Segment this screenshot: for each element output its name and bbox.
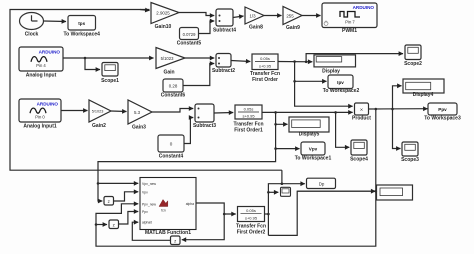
svg-text:Gain2: Gain2 [92, 123, 106, 129]
svg-text:Constant5: Constant5 [177, 41, 202, 47]
svg-text:5/1023: 5/1023 [92, 110, 104, 114]
wire Constant5 to Subtract4 [199, 21, 215, 34]
block Subtract4 [216, 9, 233, 26]
svg-text:Gain8: Gain8 [249, 25, 263, 31]
svg-text:To Workspace3: To Workspace3 [424, 116, 461, 122]
block To Workspace3 (Ppv) [428, 103, 457, 115]
svg-text:tps: tps [78, 21, 85, 26]
wire Gain9 to PWM1 [302, 15, 321, 17]
scope Scope2 [405, 45, 421, 60]
svg-text:Subtract3: Subtract3 [193, 123, 216, 129]
svg-text:MATLAB Function1: MATLAB Function1 [145, 230, 191, 236]
svg-text:Pin 4: Pin 4 [36, 63, 46, 68]
wire Subtract3 to Transfer Fcn First Order1 [214, 112, 233, 115]
svg-text:Subtract4: Subtract4 [213, 28, 236, 34]
block Display1 [377, 185, 413, 200]
scope Scope4 [351, 140, 367, 155]
svg-text:Constant4: Constant4 [159, 154, 184, 160]
scope Scope5 [281, 187, 291, 196]
wire Unit Delay1 to MATLAB in2 [114, 192, 139, 201]
delay Unit Delay1 [104, 197, 114, 206]
svg-text:Analog Input1: Analog Input1 [23, 124, 57, 130]
gain Gain10 (2.9025) [151, 3, 179, 24]
wire Ppv net: Product out to To Workspace3 / Display7 / Scope3 / down [369, 108, 428, 110]
block Display7 [403, 79, 444, 93]
svg-text:0.05s: 0.05s [260, 56, 270, 61]
wire Subtract4 to Gain8 [233, 16, 244, 18]
block To Workspace1 (Vpv) [301, 142, 325, 155]
svg-text:Vpv: Vpv [309, 147, 318, 152]
block Display [314, 55, 356, 67]
svg-text:ARDUINO: ARDUINO [39, 50, 61, 55]
svg-text:Ppv_new: Ppv_new [142, 202, 156, 206]
svg-text:alpha: alpha [186, 202, 194, 206]
wire Gain2 to Gain3 [111, 110, 127, 113]
svg-text:PWM1: PWM1 [342, 28, 357, 34]
svg-text:Gain: Gain [163, 70, 174, 76]
wire Unit Delay2 to MATLAB in4 [119, 212, 139, 225]
wire Display right edge to Scope2 [305, 61, 308, 64]
wire Gain3 to Subtract3 [152, 109, 193, 113]
svg-text:fcn: fcn [161, 209, 166, 213]
block Transfer Fcn First Order [252, 54, 278, 70]
svg-text:Display: Display [322, 69, 340, 75]
svg-text:s+0.95: s+0.95 [242, 114, 255, 119]
block MATLAB Function1 [140, 178, 196, 230]
svg-text:Scope3: Scope3 [401, 157, 419, 163]
wire D feedback from bottom to Gain10 [10, 10, 282, 171]
svg-text:Display4: Display4 [413, 92, 434, 98]
wire MATLAB alpha out to Transfer Fcn First Order2 and feedback delay [196, 203, 236, 214]
svg-text:5.3: 5.3 [134, 110, 141, 115]
svg-text:To Workspace4: To Workspace4 [63, 32, 100, 38]
svg-text:0.0729: 0.0729 [183, 32, 196, 37]
svg-text:Scope2: Scope2 [404, 61, 422, 67]
block Dp [307, 178, 336, 188]
constant Constant4 (0) [158, 135, 184, 152]
svg-text:First Order2: First Order2 [237, 230, 266, 236]
svg-text:Pin 7: Pin 7 [345, 20, 355, 25]
svg-text:ARDUINO: ARDUINO [37, 102, 59, 107]
svg-text:1/3: 1/3 [249, 13, 256, 18]
svg-text:Vpv_new: Vpv_new [142, 182, 156, 186]
scope Scope1 [102, 63, 118, 77]
block Transfer Fcn First Order1 [235, 105, 262, 119]
svg-text:ARDUINO: ARDUINO [353, 5, 375, 10]
svg-text:First Order: First Order [252, 77, 278, 83]
wire D net bottom loop to Display1 [268, 191, 375, 235]
gain Gain (5/1023) [156, 48, 185, 69]
svg-text:s+0.95: s+0.95 [245, 216, 258, 221]
wire Subtract2 to Transfer Fcn First Order [231, 61, 250, 62]
wire Ipv net: TF out to Display / To Workspace2 / Product / Scope4 [278, 61, 312, 63]
svg-text:To Workspace2: To Workspace2 [323, 88, 360, 94]
svg-text:0.05s: 0.05s [244, 107, 254, 112]
svg-text:0.05s: 0.05s [246, 208, 256, 213]
block PWM1 (ARDUINO Pin 7) [322, 3, 377, 28]
svg-text:Gain10: Gain10 [155, 24, 172, 30]
svg-text:s+0.95: s+0.95 [259, 64, 272, 69]
wire Vpv net: TF1 out to Product / Display5 / To Workspace1 / MATLAB [262, 111, 353, 113]
svg-text:Ipv: Ipv [337, 80, 344, 85]
svg-text:Subtract2: Subtract2 [212, 68, 235, 74]
svg-text:Gain3: Gain3 [132, 125, 146, 131]
gain Gain8 (1/3) [245, 7, 264, 24]
svg-text:To Workspace1: To Workspace1 [295, 156, 332, 162]
svg-text:Analog Input: Analog Input [26, 73, 57, 79]
svg-text:Display5: Display5 [299, 132, 320, 138]
svg-text:Dp: Dp [319, 181, 325, 186]
gain Gain2 (5/1023) [89, 100, 111, 122]
constant Constant5 (0.0729) [180, 28, 199, 40]
svg-text:Ppv: Ppv [142, 210, 148, 214]
svg-text:Clock: Clock [25, 32, 39, 38]
block To Workspace2 (Ipv) [328, 75, 353, 89]
svg-text:0: 0 [170, 142, 173, 147]
svg-text:Constant6: Constant6 [161, 93, 186, 99]
svg-text:2.9025: 2.9025 [156, 11, 170, 16]
block Transfer Fcn First Order2 [238, 207, 265, 222]
wire D net: TF2 out up to Dp / Scope5 / feedback left [265, 213, 269, 215]
svg-text:Scope4: Scope4 [350, 157, 368, 163]
svg-text:Scope1: Scope1 [101, 78, 119, 84]
svg-text:alpha0: alpha0 [142, 221, 152, 225]
delay Unit Delay3 flipped [171, 236, 181, 245]
svg-text:5/1023: 5/1023 [161, 56, 174, 61]
block Subtract3 [195, 104, 214, 122]
svg-text:Pin 0: Pin 0 [35, 115, 45, 120]
clock Clock [20, 13, 44, 30]
svg-text:Product: Product [352, 116, 371, 122]
wire Gain to Subtract2 [185, 57, 214, 59]
wire Clock to To Workspace4 [44, 20, 67, 23]
svg-text:Ppv: Ppv [438, 107, 447, 112]
svg-text:Gain9: Gain9 [286, 25, 300, 31]
block Product [355, 103, 369, 115]
wire Analog Input1 to Gain2 [61, 110, 88, 112]
scope Scope3 [402, 142, 418, 156]
svg-text:0.28: 0.28 [169, 84, 178, 89]
wire Analog Input to Gain with Scope1 branch [63, 57, 154, 59]
svg-text:×: × [360, 107, 363, 113]
block Analog Input1 (ARDUINO Pin 0) [19, 99, 61, 122]
delay Unit Delay2 [109, 220, 119, 229]
block Analog Input (ARDUINO Pin 4) [19, 47, 63, 71]
wire Unit Delay3 to MATLAB in5 [132, 222, 170, 240]
wire Constant4 to Subtract3 [184, 118, 193, 144]
gain Gain9 (255) [283, 7, 302, 25]
block Display5 [289, 117, 329, 132]
wire Gain8 to Gain9 [264, 15, 282, 17]
wire Gain10 to Subtract4 [179, 13, 214, 16]
svg-text:255: 255 [286, 13, 294, 18]
svg-text:First Order1: First Order1 [234, 128, 263, 134]
block Subtract2 [216, 54, 231, 68]
gain Gain3 (5.3) [128, 100, 152, 124]
wire Constant6 to Subtract2 [183, 64, 214, 86]
constant Constant6 (0.28) [163, 79, 183, 92]
block To Workspace4 (tps) [68, 16, 96, 31]
svg-text:Vpv: Vpv [142, 190, 148, 194]
